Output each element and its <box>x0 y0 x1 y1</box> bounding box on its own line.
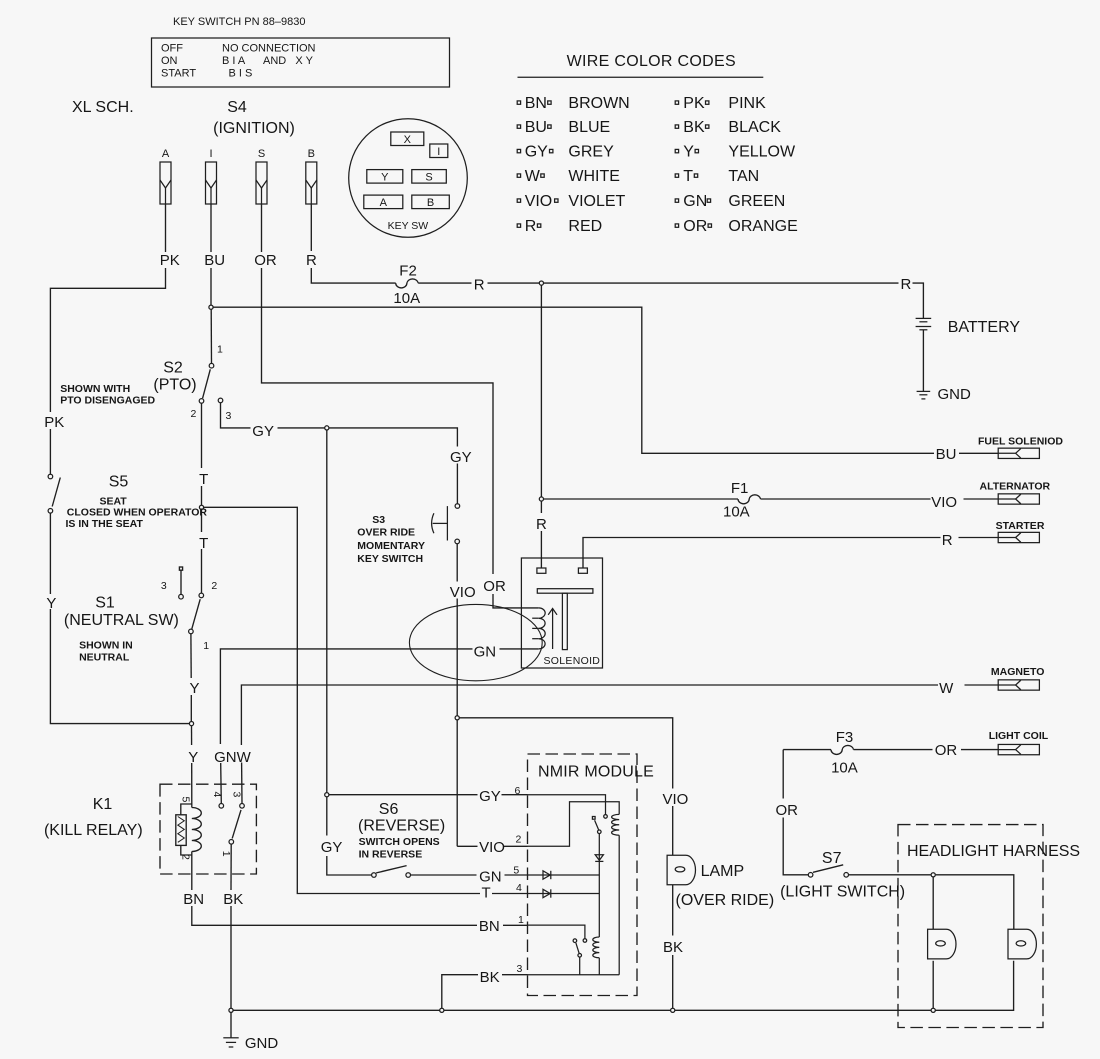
svg-text:10A: 10A <box>831 760 858 777</box>
svg-text:TAN: TAN <box>728 168 759 185</box>
svg-text:VIO: VIO <box>931 494 957 511</box>
svg-text:VIO: VIO <box>663 791 689 808</box>
svg-text:3: 3 <box>230 792 242 798</box>
svg-text:A: A <box>162 148 170 160</box>
svg-text:1: 1 <box>203 640 209 652</box>
svg-text:OR: OR <box>254 252 277 269</box>
svg-text:GY: GY <box>252 423 274 440</box>
svg-text:R: R <box>474 277 485 294</box>
svg-text:3: 3 <box>161 580 167 592</box>
svg-text:A: A <box>380 197 388 209</box>
svg-text:(KILL RELAY): (KILL RELAY) <box>44 822 143 839</box>
svg-text:START: START <box>161 68 196 80</box>
svg-text:1: 1 <box>220 851 232 857</box>
svg-text:(PTO): (PTO) <box>153 377 196 394</box>
svg-text:R: R <box>525 218 537 235</box>
svg-text:STARTER: STARTER <box>996 520 1045 532</box>
svg-text:HEADLIGHT HARNESS: HEADLIGHT HARNESS <box>907 843 1080 860</box>
svg-text:BU: BU <box>525 119 547 136</box>
svg-text:OFF: OFF <box>161 43 183 55</box>
svg-text:X: X <box>404 134 412 146</box>
svg-text:GNW: GNW <box>214 749 252 766</box>
svg-text:W: W <box>939 680 954 697</box>
svg-text:1: 1 <box>518 914 524 926</box>
svg-text:S: S <box>425 172 432 184</box>
svg-text:LAMP: LAMP <box>701 863 745 880</box>
svg-text:MOMENTARY: MOMENTARY <box>357 540 425 552</box>
svg-text:IN REVERSE: IN REVERSE <box>359 849 423 861</box>
svg-text:KEY SWITCH: KEY SWITCH <box>357 553 423 565</box>
svg-text:IS IN THE SEAT: IS IN THE SEAT <box>66 518 144 530</box>
svg-text:ON: ON <box>161 55 178 67</box>
svg-text:I: I <box>209 148 212 160</box>
svg-text:NMIR MODULE: NMIR MODULE <box>538 764 654 781</box>
svg-text:S2: S2 <box>163 360 183 377</box>
svg-text:BN: BN <box>479 918 500 935</box>
svg-text:WHITE: WHITE <box>568 168 620 185</box>
svg-text:BROWN: BROWN <box>568 95 629 112</box>
svg-text:(IGNITION): (IGNITION) <box>213 120 295 137</box>
svg-text:R: R <box>536 516 547 533</box>
svg-text:PINK: PINK <box>728 95 766 112</box>
svg-text:B: B <box>427 197 434 209</box>
svg-text:(LIGHT SWITCH): (LIGHT SWITCH) <box>780 884 905 901</box>
svg-text:BK: BK <box>663 939 683 956</box>
svg-text:3: 3 <box>517 963 523 975</box>
svg-text:BATTERY: BATTERY <box>948 319 1021 336</box>
svg-text:R: R <box>901 276 912 293</box>
svg-text:B I A: B I A <box>222 55 246 67</box>
svg-text:4: 4 <box>516 882 522 894</box>
svg-text:2: 2 <box>179 854 191 860</box>
svg-text:T: T <box>199 535 208 552</box>
svg-text:S7: S7 <box>822 850 842 867</box>
svg-text:1: 1 <box>217 344 223 356</box>
svg-text:T: T <box>683 168 693 185</box>
svg-text:B: B <box>308 148 315 160</box>
svg-text:S5: S5 <box>109 474 129 491</box>
svg-text:GN: GN <box>479 869 502 886</box>
svg-text:NEUTRAL: NEUTRAL <box>79 652 130 664</box>
svg-text:10A: 10A <box>723 504 750 521</box>
svg-text:GY: GY <box>321 839 343 856</box>
svg-text:VIO: VIO <box>450 584 476 601</box>
svg-text:BN: BN <box>183 891 204 908</box>
svg-text:S: S <box>258 148 265 160</box>
svg-text:OR: OR <box>683 218 707 235</box>
svg-text:VIOLET: VIOLET <box>568 193 625 210</box>
svg-text:BU: BU <box>204 252 225 269</box>
svg-text:GREY: GREY <box>568 144 614 161</box>
svg-text:T: T <box>482 885 491 902</box>
svg-text:I: I <box>437 146 440 158</box>
svg-text:SHOWN WITH: SHOWN WITH <box>60 383 130 395</box>
svg-text:ORANGE: ORANGE <box>728 218 797 235</box>
svg-text:BLACK: BLACK <box>728 119 781 136</box>
svg-text:R: R <box>306 252 317 269</box>
svg-text:SWITCH OPENS: SWITCH OPENS <box>359 836 440 848</box>
svg-text:F2: F2 <box>399 263 417 280</box>
svg-text:T: T <box>199 471 208 488</box>
svg-text:(OVER RIDE): (OVER RIDE) <box>676 892 775 909</box>
svg-text:(NEUTRAL SW): (NEUTRAL SW) <box>64 612 179 629</box>
svg-text:OR: OR <box>776 802 799 819</box>
svg-text:GND: GND <box>938 386 972 403</box>
svg-text:S6: S6 <box>379 801 399 818</box>
svg-text:RED: RED <box>568 218 602 235</box>
svg-text:BN: BN <box>525 95 547 112</box>
svg-text:PTO DISENGAGED: PTO DISENGAGED <box>60 395 155 407</box>
svg-text:OVER RIDE: OVER RIDE <box>357 527 415 539</box>
svg-text:S3: S3 <box>372 514 385 526</box>
svg-text:S1: S1 <box>95 595 115 612</box>
svg-text:R: R <box>942 532 953 549</box>
svg-text:F1: F1 <box>731 480 749 497</box>
svg-text:5: 5 <box>180 797 192 803</box>
svg-text:YELLOW: YELLOW <box>728 144 796 161</box>
svg-text:6: 6 <box>515 785 521 797</box>
svg-text:CLOSED WHEN OPERATOR: CLOSED WHEN OPERATOR <box>67 507 208 519</box>
svg-text:MAGNETO: MAGNETO <box>991 666 1044 678</box>
svg-text:10A: 10A <box>393 290 420 307</box>
svg-text:PK: PK <box>683 95 705 112</box>
svg-text:Y: Y <box>46 595 56 612</box>
svg-text:F3: F3 <box>836 729 854 746</box>
svg-text:AND X Y: AND X Y <box>263 55 314 67</box>
svg-text:LIGHT COIL: LIGHT COIL <box>989 730 1049 742</box>
svg-text:SOLENOID: SOLENOID <box>544 655 601 667</box>
svg-text:XL SCH.: XL SCH. <box>72 99 134 116</box>
svg-text:WIRE COLOR CODES: WIRE COLOR CODES <box>567 53 736 70</box>
svg-text:GND: GND <box>245 1035 279 1052</box>
svg-text:BK: BK <box>683 119 705 136</box>
svg-text:S4: S4 <box>227 99 247 116</box>
svg-text:2: 2 <box>516 834 522 846</box>
svg-text:GN: GN <box>474 644 497 661</box>
svg-text:KEY SWITCH PN 88–9830: KEY SWITCH PN 88–9830 <box>173 16 305 28</box>
svg-text:BK: BK <box>223 891 243 908</box>
svg-text:(REVERSE): (REVERSE) <box>358 818 445 835</box>
svg-text:VIO: VIO <box>479 839 505 856</box>
svg-text:Y: Y <box>190 680 200 697</box>
svg-text:BK: BK <box>480 969 500 986</box>
svg-text:BLUE: BLUE <box>568 119 610 136</box>
svg-text:OR: OR <box>935 742 958 759</box>
svg-text:K1: K1 <box>93 796 113 813</box>
svg-text:Y: Y <box>188 749 198 766</box>
svg-text:GREEN: GREEN <box>728 193 785 210</box>
svg-text:GY: GY <box>479 788 501 805</box>
svg-text:PK: PK <box>44 414 64 431</box>
svg-text:4: 4 <box>211 792 223 798</box>
svg-text:GN: GN <box>683 193 707 210</box>
svg-text:B I S: B I S <box>229 68 253 80</box>
svg-text:Y: Y <box>683 144 694 161</box>
svg-text:KEY SW: KEY SW <box>388 220 429 232</box>
svg-text:3: 3 <box>226 410 232 422</box>
svg-text:2: 2 <box>191 408 197 420</box>
svg-text:VIO: VIO <box>525 193 553 210</box>
svg-text:BU: BU <box>936 446 957 463</box>
svg-text:W: W <box>525 168 541 185</box>
svg-text:OR: OR <box>483 578 506 595</box>
svg-text:SHOWN IN: SHOWN IN <box>79 640 133 652</box>
svg-text:PK: PK <box>160 252 180 269</box>
svg-text:ALTERNATOR: ALTERNATOR <box>980 481 1051 493</box>
svg-text:Y: Y <box>381 172 389 184</box>
svg-text:GY: GY <box>525 144 548 161</box>
svg-text:GY: GY <box>450 449 472 466</box>
svg-text:5: 5 <box>513 865 519 877</box>
svg-text:FUEL SOLENIOD: FUEL SOLENIOD <box>978 436 1063 448</box>
svg-text:2: 2 <box>211 580 217 592</box>
svg-text:NO CONNECTION: NO CONNECTION <box>222 43 316 55</box>
